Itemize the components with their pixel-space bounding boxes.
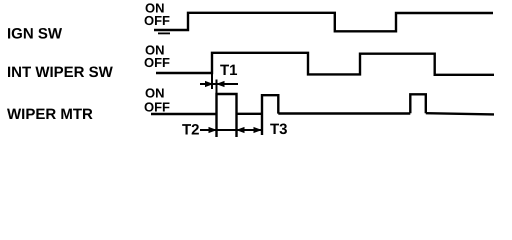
svg-text:WIPER MTR: WIPER MTR (7, 106, 93, 123)
wire IGN SW waveform (154, 13, 493, 32)
wire WIPER MTR pulse 3 (410, 94, 426, 113)
wire WIPER MTR baseline left (151, 113, 217, 115)
arrowhead T1 left (points right, tip at INT SW rise) (205, 81, 214, 87)
svg-text:OFF: OFF (144, 100, 170, 115)
svg-text:ON: ON (145, 86, 165, 101)
svg-text:T2: T2 (182, 122, 200, 139)
wire WIPER MTR baseline mid2 (278, 112, 410, 114)
arrowhead T2 (points right, tip at pulse1 rise) (209, 127, 218, 133)
wire scan dash under IGN SW baseline (158, 33, 170, 35)
wire INT WIPER SW rise extension down (211, 73, 213, 89)
wire WIPER MTR rise 1 extension up (216, 80, 218, 94)
svg-text:OFF: OFF (144, 55, 170, 70)
wire T2 leader line (200, 129, 217, 131)
wire WIPER MTR pulse 2 (262, 95, 278, 135)
svg-text:OFF: OFF (144, 13, 170, 28)
arrowhead T1 right (points left, tip at WIPER MTR rise) (216, 81, 225, 87)
wire WIPER MTR pulse 1 (217, 94, 237, 137)
svg-text:IGN SW: IGN SW (7, 26, 63, 43)
svg-text:T3: T3 (270, 121, 288, 138)
wire INT WIPER SW waveform (156, 53, 494, 75)
arrowhead T3 right (points right, tip at pulse2 rise) (254, 127, 263, 133)
wire WIPER MTR baseline mid1 (237, 113, 263, 115)
arrowhead T3 left (points left, tip at pulse1 fall) (236, 127, 245, 133)
wire T3 span line (237, 129, 262, 131)
svg-text:INT WIPER SW: INT WIPER SW (7, 64, 114, 81)
wire WIPER MTR baseline right (426, 113, 494, 114)
svg-text:T1: T1 (220, 62, 238, 79)
wire T1 arrow line (200, 83, 238, 85)
wire T2 span line (217, 129, 237, 131)
